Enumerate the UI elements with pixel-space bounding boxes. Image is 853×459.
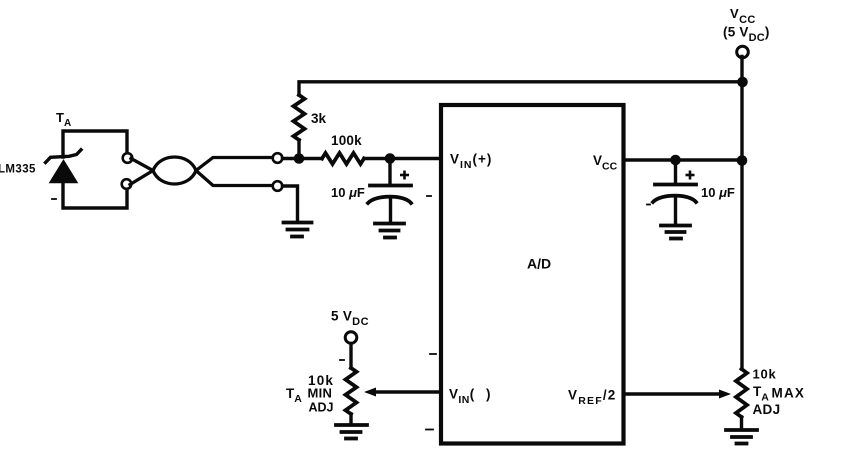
junction node A	[294, 153, 305, 164]
stray print marks	[52, 196, 650, 430]
label + (C1)	[400, 171, 409, 180]
svg-text:VIN(+): VIN(+)	[450, 152, 492, 172]
sensor LM335 body box	[63, 131, 127, 208]
svg-text:VREF/2: VREF/2	[568, 388, 617, 408]
capacitor C1 10uF lead	[388, 159, 391, 184]
ground G4 (under R2)	[336, 425, 367, 439]
wire 3k bottom lead	[297, 140, 300, 159]
svg-text:VCC: VCC	[593, 153, 618, 173]
terminal circle twisted pair right bottom	[273, 181, 283, 191]
terminal circle Vcc supply	[737, 46, 749, 58]
svg-text:(5 VDC): (5 VDC)	[723, 25, 770, 45]
capacitor C2 plus plate	[655, 183, 696, 187]
capacitor C1 bottom lead	[389, 200, 392, 221]
svg-text:ADJ: ADJ	[753, 402, 781, 417]
sensor LM335 zener diode with arrow	[46, 150, 82, 183]
svg-text:3k: 3k	[311, 111, 327, 126]
svg-text:100k: 100k	[331, 133, 362, 148]
A/D converter box U1	[441, 105, 624, 444]
wire 5VDC to pot R2	[349, 344, 352, 369]
wire Vcc pin to rail	[625, 158, 742, 161]
svg-text:10k: 10k	[753, 367, 777, 382]
capacitor C1 plus plate	[370, 184, 411, 188]
svg-text:ADJ: ADJ	[309, 401, 334, 415]
ground G3 (under C2)	[661, 226, 690, 239]
resistor 100k	[322, 153, 364, 164]
wire Vcc vertical rail	[740, 57, 743, 370]
capacitor C2 curved plate	[653, 196, 696, 202]
svg-text:LM335: LM335	[0, 164, 36, 176]
svg-text:VCC: VCC	[730, 6, 756, 26]
terminal circle twisted pair right top	[273, 153, 283, 163]
junction Vcc rail / Vcc pin wire	[737, 155, 748, 166]
capacitor C2 bottom lead	[674, 199, 677, 223]
svg-text:10 μF: 10 μF	[331, 185, 365, 200]
potentiometer R3 10k TA MAX ADJ	[736, 369, 747, 417]
svg-text:A/D: A/D	[527, 256, 551, 272]
wire bottom terminal to ground	[283, 186, 298, 220]
terminal circle LM335 pin top	[123, 153, 133, 163]
junction Vcc rail / top rail	[737, 77, 748, 88]
svg-text:10 μF: 10 μF	[701, 185, 735, 200]
junction node B (VIN+ node)	[385, 153, 396, 164]
potentiometer R2 10k TA MIN ADJ	[346, 368, 357, 414]
ground G5 (under R3)	[726, 430, 757, 444]
terminal circle LM335 pin bottom	[122, 179, 132, 189]
svg-text:VIN( ): VIN( )	[449, 387, 491, 407]
wire top rail (3k to Vcc)	[299, 82, 743, 95]
wire 100k to VIN(+) pin	[364, 157, 441, 160]
terminal circle 5VDC	[345, 332, 357, 344]
wire VIN(-) to pot R2 wiper (arrow)	[374, 390, 441, 393]
svg-text:MIN: MIN	[308, 386, 333, 401]
wire pot R3 bottom lead	[740, 417, 743, 428]
junction node C (Vcc bypass)	[670, 155, 681, 166]
twisted pair wire top conductor	[131, 158, 273, 185]
svg-text:TA: TA	[753, 384, 769, 404]
svg-text:5 VDC: 5 VDC	[331, 309, 369, 329]
twisted pair wire bottom conductor	[130, 157, 273, 186]
capacitor C2 10uF lead	[674, 160, 677, 182]
wire VREF/2 to pot R3 wiper (arrow)	[625, 392, 721, 395]
ground G2 (under C1)	[375, 224, 404, 238]
wire pot R2 bottom lead	[349, 414, 352, 423]
wire node A to 100k	[283, 157, 323, 160]
svg-text:TA: TA	[56, 110, 71, 129]
svg-text:MAX: MAX	[772, 386, 806, 401]
capacitor C1 curved plate	[368, 197, 411, 203]
label + (C2)	[686, 171, 695, 180]
resistor 3k	[294, 95, 305, 140]
ground G1 (twisted pair shield)	[284, 223, 312, 237]
svg-text:TA: TA	[286, 386, 302, 405]
